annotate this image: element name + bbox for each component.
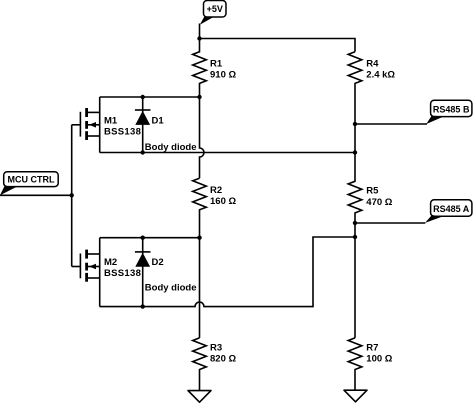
- wire RS485 A: [355, 222, 425, 224]
- node R1/M1 junction: [197, 95, 201, 99]
- wire right rail A node to M2 node: [354, 223, 356, 237]
- svg-text:100 Ω: 100 Ω: [366, 354, 392, 365]
- wire M2 source with hop to node A: [100, 237, 355, 307]
- svg-text:Body diode: Body diode: [145, 142, 197, 153]
- svg-text:910 Ω: 910 Ω: [210, 70, 236, 81]
- node D2 cathode: [141, 236, 145, 240]
- wire M1 source to right rail: [100, 152, 355, 154]
- svg-text:Body diode: Body diode: [145, 282, 197, 293]
- svg-text:R3: R3: [210, 342, 222, 353]
- svg-text:2.4 kΩ: 2.4 kΩ: [366, 70, 395, 81]
- node D1 cathode: [141, 95, 145, 99]
- resistor R5: [348, 153, 393, 224]
- wire M1 drain bus: [100, 96, 200, 98]
- node RS485 A junction: [353, 221, 357, 225]
- svg-text:R7: R7: [366, 343, 378, 354]
- svg-text:M1: M1: [104, 115, 118, 126]
- diode D1: [135, 97, 164, 153]
- svg-text:R5: R5: [366, 186, 379, 197]
- node +5V junction: [197, 36, 201, 40]
- wire left rail hop over M1 source wire: [200, 97, 205, 178]
- svg-text:R2: R2: [210, 185, 222, 196]
- wire left rail R2 to R3: [199, 238, 201, 338]
- svg-text:R1: R1: [210, 59, 223, 70]
- svg-text:BSS138: BSS138: [104, 268, 141, 279]
- wire gate bus: [71, 125, 73, 267]
- svg-text:RS485 A: RS485 A: [433, 204, 470, 214]
- svg-text:820 Ω: 820 Ω: [210, 354, 236, 365]
- flag RS485 B: [426, 100, 472, 124]
- resistor R4: [348, 52, 395, 124]
- svg-text:MCU CTRL: MCU CTRL: [8, 174, 55, 184]
- svg-text:D1: D1: [152, 115, 165, 126]
- svg-text:D2: D2: [152, 257, 164, 268]
- node D2 anode: [141, 304, 145, 308]
- wire MCU CTRL: [0, 194, 72, 196]
- transistor M1: [72, 97, 141, 153]
- resistor R7: [348, 338, 393, 390]
- wire right rail B node to M1 source node: [354, 124, 356, 153]
- diode D2: [135, 238, 164, 307]
- power +5V: [200, 1, 226, 25]
- wire top bus: [200, 39, 356, 52]
- svg-text:+5V: +5V: [207, 4, 223, 14]
- wire +5V lead: [199, 24, 201, 39]
- resistor R2: [193, 178, 237, 238]
- flag MCU CTRL: [0, 172, 58, 196]
- node M2 source / right rail: [353, 235, 357, 239]
- ground (right): [344, 390, 367, 402]
- node gate bus junction: [70, 193, 74, 197]
- flag RS485 A: [425, 200, 472, 223]
- svg-text:470 Ω: 470 Ω: [366, 197, 392, 208]
- resistor R3: [193, 338, 237, 391]
- svg-text:R4: R4: [366, 59, 379, 70]
- ground (left): [188, 391, 211, 403]
- wire right rail to R7: [354, 237, 356, 338]
- svg-text:BSS138: BSS138: [104, 126, 141, 137]
- resistor R1: [193, 39, 237, 98]
- svg-text:RS485 B: RS485 B: [433, 104, 470, 114]
- node D1 anode: [141, 150, 145, 154]
- svg-text:160 Ω: 160 Ω: [210, 196, 236, 207]
- svg-text:M2: M2: [104, 257, 117, 268]
- wire RS485 B: [355, 123, 427, 125]
- node RS485 B junction: [353, 122, 357, 126]
- node R2/M2 junction: [197, 236, 201, 240]
- wire M2 drain bus: [100, 237, 200, 239]
- transistor M2: [72, 238, 141, 307]
- node M1 source / right rail: [353, 150, 357, 154]
